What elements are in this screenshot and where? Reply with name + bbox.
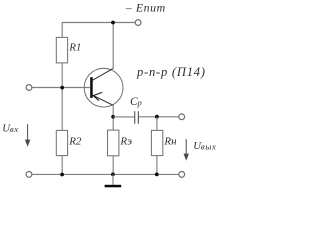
wire emitter node to capacitor — [113, 116, 134, 118]
svg-text:Uвых: Uвых — [193, 140, 216, 152]
node base divider junction — [60, 86, 64, 90]
node output junction — [155, 115, 159, 119]
wire Rn bottom — [156, 156, 158, 175]
wire bottom rail — [32, 173, 178, 175]
wire R2 bottom — [61, 156, 63, 175]
terminal output top — [179, 114, 185, 120]
svg-text:Rн: Rн — [163, 136, 177, 148]
node emitter junction — [111, 115, 115, 119]
wire capacitor to output — [139, 116, 179, 118]
terminal -Ept — [135, 20, 141, 26]
node collector-rail junction — [111, 21, 115, 25]
resistor R1 — [56, 37, 67, 63]
transistor Q1 emitter arrow (p-n-p) — [93, 92, 102, 95]
node ground junction — [111, 173, 115, 177]
transistor Q1 circle — [84, 68, 123, 107]
svg-text:Uвх: Uвх — [2, 122, 18, 134]
wire top rail — [62, 23, 138, 38]
svg-text:R2: R2 — [68, 136, 82, 148]
wire Re bottom — [112, 156, 114, 175]
resistor Rn — [151, 130, 162, 155]
wire R1 to base node — [61, 63, 63, 130]
arrow output down — [185, 139, 187, 158]
terminal input — [26, 85, 32, 91]
wire collector — [112, 23, 114, 69]
resistor R2 — [56, 130, 67, 155]
wire emitter — [112, 105, 114, 130]
transistor Q1 emitter diagonal — [93, 95, 114, 105]
transistor Q1 base bar — [90, 77, 93, 98]
transistor Q1 collector diagonal — [93, 68, 114, 80]
ground — [112, 174, 114, 185]
svg-text:R1: R1 — [68, 42, 81, 54]
svg-text:Rэ: Rэ — [119, 136, 132, 148]
capacitor Cr plates — [134, 111, 136, 124]
resistor Re — [108, 130, 119, 156]
arrow input down — [27, 124, 29, 144]
terminal bottom left — [26, 172, 32, 178]
wire input to base — [32, 87, 90, 89]
node R2-bottom junction — [60, 173, 64, 177]
svg-text:Cр: Cр — [130, 96, 142, 108]
terminal bottom right — [179, 172, 185, 178]
svg-text:– Eпит: – Eпит — [125, 1, 166, 15]
svg-text:p-n-p (П14): p-n-p (П14) — [136, 65, 206, 79]
wire Rn top — [156, 117, 158, 131]
node Rn-bottom junction — [155, 173, 159, 177]
